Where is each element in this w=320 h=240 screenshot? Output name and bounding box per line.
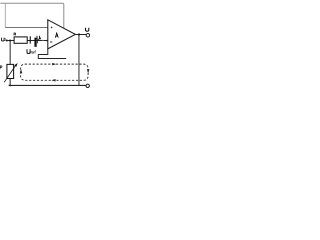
label Uref	[27, 49, 36, 53]
wire rail to op-amp upper input	[5, 27, 48, 29]
node U2 terminal dot	[6, 39, 8, 41]
loop arrow down right	[87, 69, 90, 73]
battery short thick plate	[34, 38, 36, 47]
battery long thin plate	[30, 36, 31, 43]
op-amp plus mark	[51, 27, 53, 29]
label A	[55, 33, 58, 38]
node output junction dot	[78, 33, 80, 35]
potentiometer wire lower	[9, 79, 11, 86]
potentiometer wire upper	[9, 41, 11, 65]
label U output	[86, 28, 89, 32]
loop arrow right top	[52, 63, 56, 66]
wire top feedback rail	[0, 3, 64, 29]
battery small plate tick	[36, 40, 39, 43]
potentiometer arrow	[4, 65, 16, 82]
loop arrow up left	[20, 69, 23, 73]
label Uk	[37, 36, 41, 40]
node faint dot	[42, 40, 43, 41]
junction dot to potentiometer	[9, 40, 11, 42]
op-amp minus mark	[50, 41, 52, 43]
node lower input junction	[46, 40, 48, 42]
label U2	[1, 38, 5, 41]
wire op-amp output	[75, 34, 86, 36]
op-amp A	[48, 20, 76, 49]
wire bottom rail	[9, 84, 87, 86]
wire output down to bottom rail	[78, 35, 80, 86]
node pot-bottom junction dot	[9, 85, 11, 87]
wire main input line	[7, 40, 48, 42]
label R	[14, 33, 16, 35]
output terminal circle	[86, 33, 90, 37]
bottom terminal circle	[86, 84, 89, 87]
loop arrow left bottom	[51, 79, 55, 82]
label P	[0, 66, 2, 69]
potentiometer P body	[7, 64, 14, 78]
feedback loop dashed	[21, 64, 89, 80]
wire op-amp common stub zigzag	[38, 49, 66, 59]
resistor R	[14, 37, 27, 43]
wire left vertical branch	[4, 3, 6, 27]
